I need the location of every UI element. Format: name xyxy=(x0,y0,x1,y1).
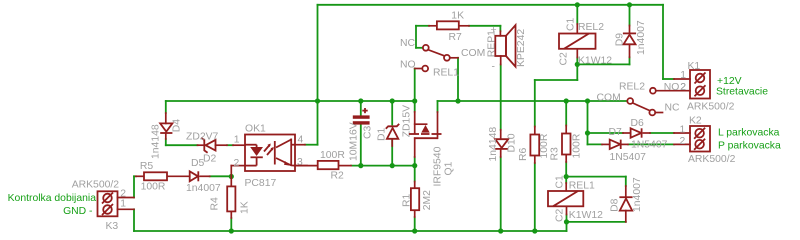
svg-text:REL2: REL2 xyxy=(578,22,604,33)
wire drain xyxy=(414,157,416,166)
diode D6 1N5407 xyxy=(623,118,668,150)
svg-text:R2: R2 xyxy=(331,171,345,182)
svg-text:C1: C1 xyxy=(566,17,577,31)
svg-text:R5: R5 xyxy=(140,161,154,172)
wire R4 bottom xyxy=(230,218,232,231)
svg-text:L parkovacka: L parkovacka xyxy=(718,127,780,138)
svg-text:P parkovacka: P parkovacka xyxy=(718,140,781,151)
wire +12V top horizontal xyxy=(318,4,664,6)
svg-text:1: 1 xyxy=(680,70,686,81)
svg-text:100R: 100R xyxy=(141,182,166,193)
wire REL2 C2 to R6 xyxy=(535,80,578,127)
wire R6 bottom xyxy=(534,163,536,231)
node junction row drain R1 xyxy=(412,163,417,168)
svg-text:K1: K1 xyxy=(688,61,701,72)
zener diode D1 ZD15V xyxy=(377,105,413,146)
wire REL2 C2 junction xyxy=(577,57,629,80)
svg-text:R7: R7 xyxy=(449,32,463,43)
wire K3 pin2 up xyxy=(134,176,136,197)
svg-text:1N5407: 1N5407 xyxy=(610,152,647,163)
svg-text:+: + xyxy=(491,25,497,36)
svg-text:1n4148: 1n4148 xyxy=(151,124,162,159)
svg-text:COM: COM xyxy=(461,48,485,59)
wire C3 top xyxy=(360,101,362,116)
wire gate rail xyxy=(438,101,627,112)
diode D7 1N5407 xyxy=(602,127,646,163)
svg-text:D1: D1 xyxy=(377,127,388,141)
wire D1 top xyxy=(391,101,393,125)
svg-text:K1W12: K1W12 xyxy=(578,56,612,67)
transistor Q1 IRF9540 xyxy=(409,112,455,187)
wire D10 bottom xyxy=(500,157,502,231)
node junction gnd R4 xyxy=(229,228,234,233)
svg-text:100R: 100R xyxy=(320,150,345,161)
speaker REP1 KPE242 xyxy=(486,25,527,73)
wire K3 pin1 down xyxy=(133,209,135,231)
svg-text:NO: NO xyxy=(664,82,680,93)
svg-text:R6: R6 xyxy=(518,147,529,161)
svg-text:R4: R4 xyxy=(210,197,221,211)
svg-text:2: 2 xyxy=(234,158,240,169)
svg-text:-: - xyxy=(492,62,495,73)
svg-text:D2: D2 xyxy=(203,154,217,165)
svg-text:C1: C1 xyxy=(555,175,566,189)
svg-text:D10: D10 xyxy=(507,133,518,152)
svg-text:ARK500/2: ARK500/2 xyxy=(687,102,735,113)
wire D9 top xyxy=(629,5,631,26)
wire REL1 NO drop xyxy=(414,69,416,102)
wire R3 bottom xyxy=(565,162,567,177)
svg-text:D4: D4 xyxy=(172,119,183,133)
node junction REL1 C2 xyxy=(564,219,569,224)
resistor R5 100R xyxy=(136,161,190,193)
svg-text:R3: R3 xyxy=(550,147,561,161)
wire R7 left xyxy=(416,26,429,48)
node junction REL2 C2 xyxy=(575,62,580,67)
resistor R4 1K xyxy=(210,177,251,219)
wire REL1 C2 to ground xyxy=(567,215,626,232)
wire R7 right to speaker xyxy=(469,26,500,31)
node junction OK1 pin2 xyxy=(229,174,234,179)
svg-text:1n4007: 1n4007 xyxy=(186,183,221,194)
wire R1 bottom xyxy=(414,217,416,231)
optocoupler OK1 PC817 xyxy=(231,123,307,189)
node junction rail OK1 xyxy=(315,98,320,103)
resistor R7 xyxy=(429,11,469,43)
svg-text:1N5407: 1N5407 xyxy=(631,140,668,151)
resistor R3 100R xyxy=(550,126,583,163)
relay switch REL2 contacts xyxy=(597,82,691,116)
node junction rail D1 xyxy=(390,98,395,103)
resistor R6 100R xyxy=(518,127,550,164)
svg-text:K3: K3 xyxy=(106,221,119,232)
relay coil REL1 xyxy=(548,175,603,222)
node junction R3 REL1 C1 xyxy=(564,174,569,179)
svg-text:1: 1 xyxy=(680,125,686,136)
svg-text:K2: K2 xyxy=(689,116,702,127)
svg-text:Stretavacie: Stretavacie xyxy=(716,86,768,97)
svg-text:1K: 1K xyxy=(451,11,464,22)
wire +12V vertical to rail xyxy=(317,5,319,101)
svg-text:PC817: PC817 xyxy=(245,178,277,189)
wire ground rail xyxy=(134,230,567,232)
wire left +12V rail xyxy=(166,100,415,102)
svg-text:C2: C2 xyxy=(555,208,566,222)
svg-text:ZD15V: ZD15V xyxy=(402,105,413,137)
diode D10 1n4148 xyxy=(488,127,518,162)
relay switch REL1 contacts xyxy=(400,38,485,78)
svg-text:OK1: OK1 xyxy=(245,123,266,134)
wire D2 to OK1 pin1 xyxy=(227,144,233,146)
wire REL1 C1 pin xyxy=(565,177,567,183)
wire R1 top xyxy=(414,166,416,182)
node junction gnd R1 xyxy=(412,228,417,233)
svg-text:4: 4 xyxy=(298,135,304,146)
wire D5 to junction xyxy=(210,175,232,177)
svg-text:100R: 100R xyxy=(539,133,550,158)
node junction row D1 xyxy=(390,163,395,168)
svg-text:COM: COM xyxy=(597,93,621,104)
svg-text:REL2: REL2 xyxy=(619,82,645,93)
wire D7 row xyxy=(588,143,675,145)
wire C3 bottom xyxy=(360,125,362,166)
node junction rail C3 xyxy=(358,98,363,103)
relay coil REL2 xyxy=(559,17,613,66)
svg-text:1n4148: 1n4148 xyxy=(488,127,499,162)
svg-text:D5: D5 xyxy=(191,158,205,169)
wire OK1 pin4 to rail xyxy=(305,101,318,145)
svg-text:ARK500/2: ARK500/2 xyxy=(688,154,736,165)
node junction top REL2 xyxy=(575,2,580,7)
diode D8 1n4007 xyxy=(610,177,644,222)
wire speaker minus down xyxy=(500,65,502,130)
svg-text:D8: D8 xyxy=(610,198,621,212)
connector K3 xyxy=(72,179,134,232)
wire D4 to D2 xyxy=(166,139,198,145)
svg-text:D6: D6 xyxy=(631,118,645,129)
svg-text:REL1: REL1 xyxy=(569,180,595,191)
svg-text:D9: D9 xyxy=(615,33,626,47)
svg-text:NC: NC xyxy=(400,38,416,49)
diode D9 1n4007 xyxy=(615,20,648,57)
svg-text:2M2: 2M2 xyxy=(422,190,433,210)
node junction D6 row xyxy=(585,130,590,135)
wire drain row xyxy=(351,165,415,167)
svg-text:GND -: GND - xyxy=(63,206,92,217)
svg-text:100R: 100R xyxy=(572,133,583,158)
node junction gate R3 xyxy=(564,98,569,103)
svg-text:1n4007: 1n4007 xyxy=(632,177,643,212)
connector K2 xyxy=(674,116,736,165)
svg-text:10M16V: 10M16V xyxy=(349,122,360,161)
svg-text:REL1: REL1 xyxy=(433,67,459,78)
node junction gnd R6 xyxy=(532,228,537,233)
wire K1 pin1 drop xyxy=(663,5,674,79)
svg-text:C3: C3 xyxy=(363,125,374,139)
resistor R1 2M2 xyxy=(402,182,434,218)
node junction row C3 xyxy=(358,163,363,168)
svg-text:ZD2V7: ZD2V7 xyxy=(186,132,219,143)
wire Q1 source xyxy=(414,101,416,112)
svg-text:1: 1 xyxy=(120,198,126,209)
svg-text:NO: NO xyxy=(400,59,416,70)
node junction top D9 xyxy=(627,2,632,7)
resistor R2 100R xyxy=(295,150,351,181)
wire REL1 COM drop xyxy=(457,58,459,101)
svg-text:K1W12: K1W12 xyxy=(569,210,603,221)
node junction gate K2 branch xyxy=(585,98,590,103)
svg-text:2: 2 xyxy=(680,82,686,93)
svg-text:C2: C2 xyxy=(559,52,570,66)
svg-text:Q1: Q1 xyxy=(444,161,455,175)
svg-text:KPE242: KPE242 xyxy=(516,29,527,67)
wire REL2 C1 xyxy=(576,5,578,24)
diode D4 1n4148 xyxy=(151,113,183,159)
wire REL1 C1 to D8 xyxy=(566,177,626,186)
svg-text:NC: NC xyxy=(665,103,681,114)
svg-text:ARK500/2: ARK500/2 xyxy=(72,179,120,190)
wire D1 bottom xyxy=(391,140,393,166)
wire D4 top xyxy=(165,101,167,113)
svg-text:1n4007: 1n4007 xyxy=(636,20,647,55)
node junction gnd D10 xyxy=(498,228,503,233)
wire K2 branch vertical xyxy=(587,101,589,144)
connector K1 xyxy=(674,61,735,113)
node junction gate COM REL1 xyxy=(455,98,460,103)
diode D5 1n4007 xyxy=(186,158,221,194)
svg-text:1K: 1K xyxy=(240,201,251,214)
wire D6 row xyxy=(588,132,675,134)
zener diode D2 ZD2V7 xyxy=(186,132,227,165)
svg-text:Kontrolka dobijania: Kontrolka dobijania xyxy=(8,193,97,204)
node label +12V Stretavacie xyxy=(716,76,768,97)
capacitor C3 10M16V xyxy=(349,108,374,161)
svg-text:1: 1 xyxy=(234,135,240,146)
node junction rail Q1 source xyxy=(412,98,417,103)
svg-text:IRF9540: IRF9540 xyxy=(433,146,444,186)
svg-text:R1: R1 xyxy=(402,193,413,207)
wire R3 top xyxy=(565,101,567,126)
svg-text:2: 2 xyxy=(680,136,686,147)
svg-text:D7: D7 xyxy=(609,127,623,138)
